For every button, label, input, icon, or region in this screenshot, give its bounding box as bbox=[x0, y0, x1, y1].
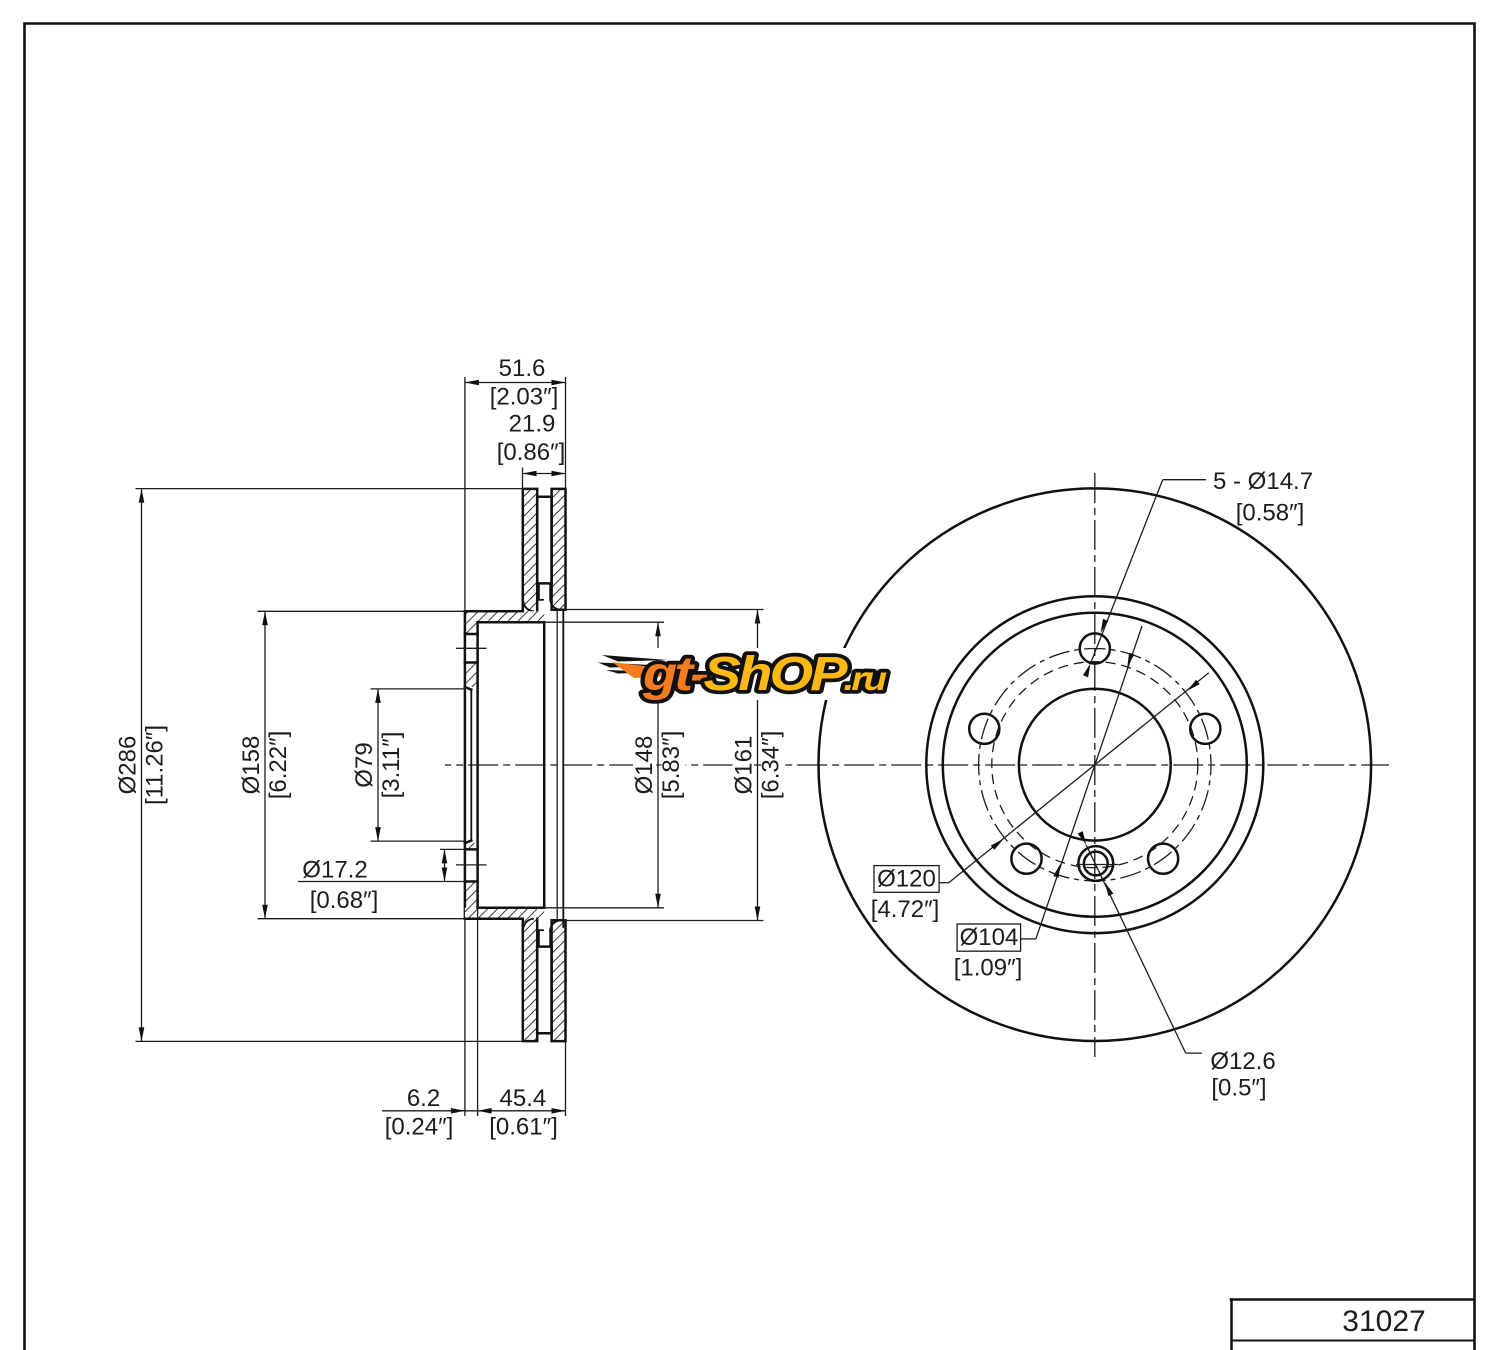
svg-text:[6.34″]: [6.34″] bbox=[758, 731, 785, 800]
svg-text:[1.09″]: [1.09″] bbox=[954, 955, 1023, 982]
horizontal axis center line bbox=[445, 764, 1389, 766]
svg-text:Ø158: Ø158 bbox=[238, 736, 265, 795]
bolt hole lower-right bbox=[1148, 844, 1178, 874]
hat flange (bottom) bbox=[465, 908, 544, 919]
svg-text:21.9: 21.9 bbox=[509, 411, 556, 438]
svg-text:Ø79: Ø79 bbox=[351, 742, 378, 787]
svg-text:[2.03″]: [2.03″] bbox=[490, 384, 559, 411]
svg-text:[0.58″]: [0.58″] bbox=[1236, 500, 1305, 527]
vent slot (bottom) bbox=[523, 919, 561, 1033]
dimension D286 [11.26"] bbox=[115, 489, 538, 1042]
disc outer circle bbox=[819, 488, 1372, 1041]
svg-text:31027: 31027 bbox=[1342, 1305, 1425, 1338]
inner silhouette lines bbox=[557, 610, 563, 927]
watermark logo bbox=[597, 648, 893, 701]
hat step circle bbox=[943, 613, 1247, 917]
svg-text:5 - Ø14.7: 5 - Ø14.7 bbox=[1213, 468, 1313, 495]
dimension 51.6 [2.03"] overall width bbox=[465, 355, 566, 611]
section dimensions bbox=[115, 355, 786, 1141]
svg-text:[0.86″]: [0.86″] bbox=[497, 439, 566, 466]
svg-text:[11.26″]: [11.26″] bbox=[142, 725, 169, 805]
svg-text:[0.68″]: [0.68″] bbox=[310, 887, 379, 914]
svg-text:45.4: 45.4 bbox=[500, 1085, 547, 1112]
svg-text:Ø161: Ø161 bbox=[731, 736, 758, 795]
front view bbox=[819, 488, 1372, 1041]
section view bbox=[456, 489, 566, 1041]
svg-text:Ø120: Ø120 bbox=[877, 866, 936, 893]
hat face wall with holes bbox=[456, 611, 487, 918]
svg-text:51.6: 51.6 bbox=[499, 355, 546, 382]
svg-text:[3.11″]: [3.11″] bbox=[378, 732, 405, 799]
title block bbox=[1231, 1300, 1474, 1350]
ring left pad (top) bbox=[523, 489, 537, 611]
svg-text:Ø104: Ø104 bbox=[960, 924, 1019, 951]
svg-text:[6.22″]: [6.22″] bbox=[265, 731, 292, 800]
svg-text:[4.72″]: [4.72″] bbox=[871, 896, 940, 923]
dimension D17.2 [0.68"] alignment hole bbox=[298, 849, 466, 914]
hub bore edge chamfers bbox=[465, 687, 471, 690]
leader dia12.6 bbox=[1078, 831, 1276, 1101]
17.2 hole window (bottom) bbox=[465, 848, 478, 851]
bolt hole lower-left bbox=[1011, 844, 1041, 874]
bolt hole top bbox=[1080, 633, 1110, 663]
bolt circle dia 120 (dash-dot) bbox=[979, 649, 1211, 881]
bolt hole upper-right bbox=[1190, 714, 1220, 744]
ring right pad (top) bbox=[552, 489, 566, 610]
ring inner circle bbox=[926, 596, 1263, 933]
dimension 45.4 [0.61"] bbox=[478, 1041, 566, 1140]
center lines bbox=[445, 473, 1389, 1057]
vertical center line of front view bbox=[1094, 473, 1096, 1057]
svg-text:Ø148: Ø148 bbox=[631, 736, 658, 795]
leader 5-14.7 bbox=[1083, 468, 1313, 677]
dimension 6.2 [0.24"] hat face thickness bbox=[382, 908, 566, 1141]
dimension D161 [6.34"] bbox=[563, 610, 785, 921]
ring right pad (bottom) bbox=[552, 920, 566, 1041]
leader dia120 bbox=[871, 673, 1209, 923]
hub bore circle bbox=[1019, 689, 1171, 841]
dimension D79 [3.11"] bbox=[351, 689, 465, 841]
vent slot (top) bbox=[523, 497, 561, 612]
dimension D158 [6.22"] bbox=[238, 611, 465, 918]
svg-text:[5.83″]: [5.83″] bbox=[658, 731, 685, 800]
wheel bolt hole window (top) bbox=[465, 633, 478, 636]
bolt hole upper-left bbox=[969, 714, 999, 744]
front view labels bbox=[871, 468, 1313, 1102]
svg-text:[0.61″]: [0.61″] bbox=[489, 1114, 558, 1141]
svg-text:Ø12.6: Ø12.6 bbox=[1210, 1048, 1275, 1075]
svg-text:Ø286: Ø286 bbox=[115, 736, 142, 795]
hat flange (top) bbox=[465, 611, 544, 908]
svg-text:6.2: 6.2 bbox=[407, 1085, 440, 1112]
ring left pad (bottom) bbox=[523, 919, 537, 1041]
circle dia 104 (dashed) bbox=[992, 662, 1198, 868]
dimension 21.9 [0.86"] ring thickness bbox=[497, 411, 566, 489]
leader dia104 bbox=[954, 626, 1142, 982]
svg-text:[0.5″]: [0.5″] bbox=[1211, 1075, 1266, 1102]
alignment hole with counterbore bbox=[1078, 846, 1113, 881]
dimension D148 [5.83"] bbox=[544, 622, 685, 908]
svg-text:Ø17.2: Ø17.2 bbox=[302, 857, 367, 884]
svg-text:[0.24″]: [0.24″] bbox=[385, 1114, 454, 1141]
